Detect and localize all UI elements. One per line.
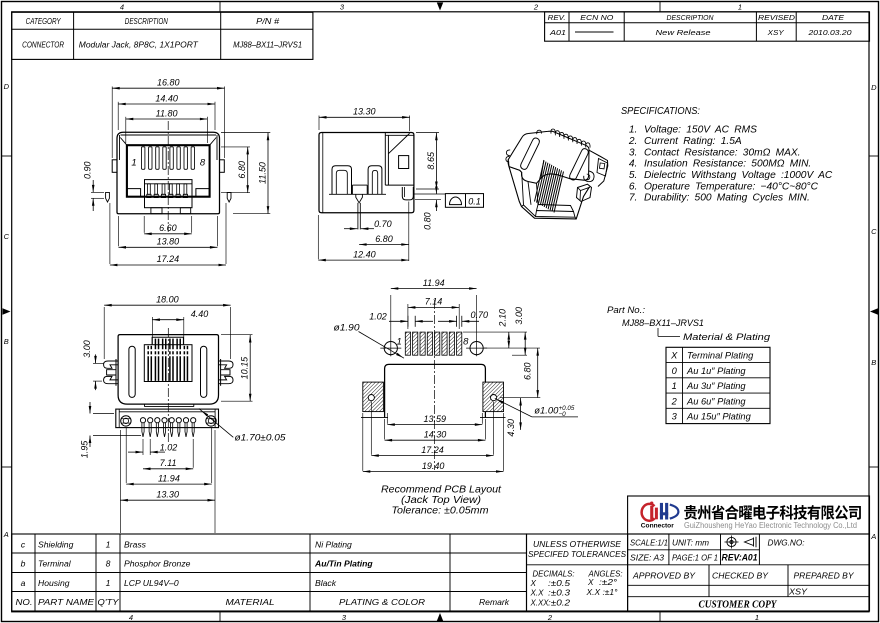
svg-text:6.80: 6.80 xyxy=(522,362,532,380)
svg-text:7.: 7. xyxy=(629,193,638,204)
svg-text:UNIT: mm: UNIT: mm xyxy=(672,538,709,548)
svg-text:PART NAME: PART NAME xyxy=(38,597,94,607)
svg-text:13.59: 13.59 xyxy=(424,414,447,424)
front view: RJ45 jack body xyxy=(117,132,220,213)
svg-text:Terminal Plating: Terminal Plating xyxy=(687,351,754,361)
svg-text:1: 1 xyxy=(131,158,136,169)
svg-text:Phosphor Bronze: Phosphor Bronze xyxy=(124,559,191,569)
svg-text:X: X xyxy=(530,579,537,588)
pcb layout: 8 pads xyxy=(405,332,410,355)
isometric view of connector xyxy=(506,129,608,219)
dim 14.40 xyxy=(117,102,119,130)
svg-text:Ni Plating: Ni Plating xyxy=(315,539,352,549)
dim 7.14 xyxy=(407,304,409,329)
svg-text:1.: 1. xyxy=(629,125,638,136)
svg-text:1: 1 xyxy=(106,539,111,549)
svg-text:GuiZhousheng HeYao Electronic: GuiZhousheng HeYao Electronic Technology… xyxy=(684,520,857,530)
title block grid xyxy=(628,534,870,611)
svg-text:DECIMALS:: DECIMALS: xyxy=(533,570,575,579)
svg-text:PLATING & COLOR: PLATING & COLOR xyxy=(339,597,425,607)
dim 4.30 xyxy=(520,398,522,430)
svg-text:A01: A01 xyxy=(549,28,566,37)
svg-text:MJ88–BX11–JRVS1: MJ88–BX11–JRVS1 xyxy=(622,318,704,328)
svg-text:DESCRIPTION: DESCRIPTION xyxy=(125,17,168,26)
svg-text:C: C xyxy=(4,232,10,241)
svg-text:14.30: 14.30 xyxy=(424,430,447,440)
svg-text:Au 1u″ Plating: Au 1u″ Plating xyxy=(686,366,746,376)
svg-text:a: a xyxy=(21,578,26,588)
side view: solder pin xyxy=(356,194,363,203)
dim 11.50 xyxy=(221,132,270,134)
svg-text:MATERIAL: MATERIAL xyxy=(226,597,275,607)
svg-text:B: B xyxy=(871,358,876,367)
svg-text:7.11: 7.11 xyxy=(160,458,177,468)
pcb layout: dia 1.90 holes xyxy=(384,342,397,355)
svg-text:0.70: 0.70 xyxy=(471,310,489,320)
svg-text:SPECIFICATIONS:: SPECIFICATIONS: xyxy=(621,105,700,117)
dim 19.40 xyxy=(362,413,364,471)
revision table xyxy=(545,12,870,41)
top view: 8 solder pins xyxy=(140,418,145,423)
top view: mount holes xyxy=(121,416,131,426)
dim 4.40 xyxy=(151,317,153,344)
svg-text:1: 1 xyxy=(755,613,759,622)
svg-text:4: 4 xyxy=(129,613,133,622)
svg-text:X.X: X.X xyxy=(530,589,545,598)
svg-text:Remark: Remark xyxy=(479,597,510,607)
svg-text:Contact Resistance: 30mΩ MAX: Contact Resistance: 30mΩ MAX. xyxy=(644,147,801,158)
logo xyxy=(642,502,679,521)
svg-text:c: c xyxy=(21,539,26,549)
top view: side latch left xyxy=(104,361,119,368)
top view: contact comb xyxy=(144,345,192,382)
dim 14.30 xyxy=(384,419,386,439)
svg-text:NO.: NO. xyxy=(16,597,33,607)
svg-text:SCALE:1/1: SCALE:1/1 xyxy=(630,538,668,548)
top view: side latch right xyxy=(219,361,234,368)
dim 0.70 xyxy=(344,228,357,230)
svg-text:1.95: 1.95 xyxy=(80,440,90,459)
projection symbols xyxy=(725,536,757,549)
svg-text:A: A xyxy=(870,532,876,541)
svg-text:0.90: 0.90 xyxy=(82,161,92,179)
svg-text:CHECKED BY: CHECKED BY xyxy=(712,570,769,580)
front view: side shield tabs xyxy=(112,160,117,173)
svg-text:4: 4 xyxy=(120,2,124,11)
svg-text:4.40: 4.40 xyxy=(191,309,209,319)
dim 11.80 xyxy=(125,117,127,143)
svg-text:1: 1 xyxy=(672,381,677,391)
svg-text:ECN NO: ECN NO xyxy=(580,13,613,22)
svg-text:6.: 6. xyxy=(629,181,638,192)
svg-text:Black: Black xyxy=(315,578,337,588)
pcb layout: body outline xyxy=(385,364,486,418)
svg-text:0.80: 0.80 xyxy=(422,212,432,230)
side view: mating face panel xyxy=(384,133,386,186)
materials table xyxy=(12,534,527,611)
svg-text:8.65: 8.65 xyxy=(426,151,436,170)
svg-text:2: 2 xyxy=(671,396,678,406)
svg-text:Recommend PCB Layout: Recommend PCB Layout xyxy=(381,484,502,495)
dim 1.02 top view xyxy=(142,439,144,455)
dim 13.30 bottom xyxy=(119,430,121,533)
svg-text:DESCRIPTION: DESCRIPTION xyxy=(667,13,715,22)
dim 0.70 pcb xyxy=(456,316,458,327)
pcb layout: side pads + dia1.00 holes xyxy=(363,382,384,412)
svg-text::±0.2: :±0.2 xyxy=(548,598,571,607)
svg-text:3.00: 3.00 xyxy=(82,340,92,358)
svg-text:Operature Temperature: −40°C: Operature Temperature: −40°C~80°C xyxy=(644,181,819,192)
svg-text:Tolerance: ±0.05mm: Tolerance: ±0.05mm xyxy=(392,505,489,516)
svg-text:6.80: 6.80 xyxy=(237,161,247,179)
leader dia 1.00 xyxy=(495,398,532,417)
svg-text:PREPARED BY: PREPARED BY xyxy=(794,570,855,580)
svg-text:1.02: 1.02 xyxy=(369,311,387,321)
svg-text:0.70: 0.70 xyxy=(374,219,392,229)
svg-text:11.94: 11.94 xyxy=(423,278,445,288)
dim 10.15 xyxy=(221,334,253,336)
dim 18.00 xyxy=(103,307,105,359)
svg-text:REV:A01: REV:A01 xyxy=(722,552,758,562)
svg-text:LCP UL94V–0: LCP UL94V–0 xyxy=(124,578,179,588)
title block: logo box xyxy=(628,496,870,534)
svg-text:Part No.:: Part No.: xyxy=(607,305,645,315)
svg-text:ø1.90: ø1.90 xyxy=(334,322,361,332)
svg-text:1: 1 xyxy=(738,2,742,11)
dim 12.40 xyxy=(317,215,319,259)
svg-text:PAGE:1 OF 1: PAGE:1 OF 1 xyxy=(672,552,718,562)
front view: socket opening xyxy=(127,145,210,197)
svg-text:B: B xyxy=(4,337,9,346)
top view: body xyxy=(118,335,218,405)
front view: latch window block xyxy=(145,180,193,208)
svg-text:(Jack Top View): (Jack Top View) xyxy=(401,495,481,506)
svg-text:Au 15u″ Plating: Au 15u″ Plating xyxy=(686,412,752,422)
svg-text:C: C xyxy=(871,227,877,236)
svg-text:2.10: 2.10 xyxy=(498,309,508,328)
svg-text:Au/Tin Plating: Au/Tin Plating xyxy=(314,559,373,569)
svg-text:3.: 3. xyxy=(629,147,638,158)
dim 6.80 bottom xyxy=(408,202,410,262)
svg-text:Dielectric Withstang Voltage: Dielectric Withstang Voltage :1000V AC xyxy=(644,170,833,181)
svg-text:SIZE: A3: SIZE: A3 xyxy=(630,552,664,562)
side view: contact hooks xyxy=(332,166,352,195)
svg-text:Au 6u″ Plating: Au 6u″ Plating xyxy=(686,396,746,406)
svg-text:XSY: XSY xyxy=(767,28,785,37)
dim 1.02 pcb xyxy=(407,316,409,327)
front view: 8 contact slots xyxy=(142,147,145,170)
svg-text:REVISED: REVISED xyxy=(758,13,796,22)
dim 1.95 xyxy=(93,413,114,415)
svg-text:18.00: 18.00 xyxy=(156,295,179,305)
dim 13.30 xyxy=(318,116,320,131)
svg-text::±2°: :±2° xyxy=(599,578,618,587)
svg-text:2: 2 xyxy=(533,2,539,11)
svg-text:3: 3 xyxy=(672,412,678,422)
svg-text:Voltage: 150V AC RMS: Voltage: 150V AC RMS xyxy=(644,125,757,136)
svg-text:2: 2 xyxy=(547,613,553,622)
svg-text:X: X xyxy=(670,351,678,361)
svg-text:APPROVED BY: APPROVED BY xyxy=(632,570,696,580)
svg-text:19.40: 19.40 xyxy=(422,461,445,471)
svg-text:7.14: 7.14 xyxy=(425,297,443,307)
front view: shield ground legs xyxy=(106,192,110,202)
svg-text:D: D xyxy=(871,83,877,92)
svg-text:SPECIFED TOLERANCES: SPECIFED TOLERANCES xyxy=(528,549,626,559)
svg-text:X.XX: X.XX xyxy=(530,598,549,607)
dim 8.65 xyxy=(416,132,439,134)
svg-text:12.40: 12.40 xyxy=(353,249,376,259)
svg-text:Au 3u″ Plating: Au 3u″ Plating xyxy=(686,381,746,391)
svg-text:11.50: 11.50 xyxy=(257,162,267,184)
svg-text:5.: 5. xyxy=(629,170,638,181)
svg-text:17.24: 17.24 xyxy=(157,254,180,264)
svg-text:Shielding: Shielding xyxy=(38,539,74,549)
svg-text:3.00: 3.00 xyxy=(514,307,524,325)
svg-text:CONNECTOR: CONNECTOR xyxy=(22,41,64,50)
top view: shield plate xyxy=(145,406,194,408)
dim 0.90 xyxy=(91,191,104,193)
svg-text:REV.: REV. xyxy=(548,13,566,22)
plating table xyxy=(666,347,770,423)
leader dia 1.70 xyxy=(199,409,233,438)
dim 7.11 xyxy=(192,439,194,468)
dim 11.94 top view xyxy=(125,428,127,483)
svg-text:Housing: Housing xyxy=(38,578,70,588)
svg-text:New Release: New Release xyxy=(656,28,711,37)
dim 3.00 top view xyxy=(93,362,104,364)
svg-text:13.80: 13.80 xyxy=(157,236,180,246)
svg-text:Brass: Brass xyxy=(124,539,147,549)
svg-text:Terminal: Terminal xyxy=(38,559,72,569)
svg-text:DATE: DATE xyxy=(822,13,845,22)
svg-text:2.: 2. xyxy=(628,136,638,147)
dim 16.80 xyxy=(111,87,113,159)
dim 13.80 xyxy=(118,216,120,246)
side view: body xyxy=(319,133,414,213)
svg-text:MJ88–BX11–JRVS1: MJ88–BX11–JRVS1 xyxy=(233,41,302,50)
svg-text:ø1.70±0.05: ø1.70±0.05 xyxy=(235,433,287,443)
svg-text:X: X xyxy=(587,578,594,587)
svg-text:−0: −0 xyxy=(559,411,567,418)
svg-text:4.30: 4.30 xyxy=(506,419,516,437)
svg-text:UNLESS OTHERWISE: UNLESS OTHERWISE xyxy=(533,539,621,549)
dim 6.60 xyxy=(143,216,145,233)
company name CJK xyxy=(684,505,861,520)
dim 6.80 right xyxy=(221,146,250,148)
svg-text::±0.3: :±0.3 xyxy=(548,589,571,598)
svg-text:2010.03.20: 2010.03.20 xyxy=(807,28,852,37)
svg-text:ø1.00: ø1.00 xyxy=(534,406,559,416)
svg-text:Q'TY: Q'TY xyxy=(98,597,120,607)
svg-text:Current Rating: 1.5A: Current Rating: 1.5A xyxy=(644,136,742,147)
svg-text:Insulation Resistance: 500MΩ: Insulation Resistance: 500MΩ MIN. xyxy=(644,159,811,170)
svg-text:P/N #: P/N # xyxy=(256,17,279,26)
svg-text:13.30: 13.30 xyxy=(353,107,376,117)
dim 11.94 pcb xyxy=(390,295,392,340)
svg-text:8: 8 xyxy=(106,559,111,569)
svg-text:4.: 4. xyxy=(629,159,638,170)
svg-text:XSY: XSY xyxy=(788,587,809,597)
svg-text:Material & Plating: Material & Plating xyxy=(683,332,771,342)
svg-text:8: 8 xyxy=(463,336,469,347)
svg-text:17.24: 17.24 xyxy=(421,445,444,455)
svg-text:10.15: 10.15 xyxy=(240,356,250,380)
svg-text:0.1: 0.1 xyxy=(468,196,481,206)
svg-text:16.80: 16.80 xyxy=(157,78,180,88)
flatness tolerance box 0.1 xyxy=(445,194,483,208)
svg-text:11.94: 11.94 xyxy=(158,473,180,483)
tolerance block xyxy=(527,534,628,611)
svg-text:Modular Jack, 8P8C, 1X1PORT: Modular Jack, 8P8C, 1X1PORT xyxy=(79,41,199,50)
svg-text:DWG.NO:: DWG.NO: xyxy=(768,538,806,548)
dim 0.80 xyxy=(435,182,437,194)
dim 17.24 pcb xyxy=(370,402,372,455)
svg-text:A: A xyxy=(3,530,9,539)
svg-text:0: 0 xyxy=(672,366,678,376)
svg-text:13.30: 13.30 xyxy=(156,489,179,499)
svg-text:Connector: Connector xyxy=(641,523,675,530)
svg-text:CUSTOMER COPY: CUSTOMER COPY xyxy=(699,600,778,611)
dim 2.10 xyxy=(508,332,510,348)
svg-text:1: 1 xyxy=(106,578,111,588)
dim 17.24 xyxy=(109,203,111,264)
svg-text:CATEGORY: CATEGORY xyxy=(26,17,61,26)
svg-text:11.80: 11.80 xyxy=(156,108,178,118)
svg-text::±0.5: :±0.5 xyxy=(548,579,571,588)
svg-text:X.X :±1°: X.X :±1° xyxy=(585,588,618,597)
dim 3.00 pcb xyxy=(524,332,526,355)
dim 13.59 xyxy=(386,413,388,424)
svg-text:14.40: 14.40 xyxy=(155,93,178,103)
svg-text:Durability: 500 Mating Cycl: Durability: 500 Mating Cycles MIN. xyxy=(644,193,810,204)
svg-text:8: 8 xyxy=(200,158,206,169)
svg-text:6.80: 6.80 xyxy=(375,234,393,244)
side view: board lock pin xyxy=(402,187,413,200)
svg-text:1.02: 1.02 xyxy=(160,442,178,452)
dim 6.80 pcb xyxy=(537,348,539,398)
svg-text:D: D xyxy=(4,82,10,91)
svg-text:6.60: 6.60 xyxy=(159,223,177,233)
svg-text:b: b xyxy=(21,559,26,569)
header table: category/description/part-number xyxy=(12,12,313,59)
